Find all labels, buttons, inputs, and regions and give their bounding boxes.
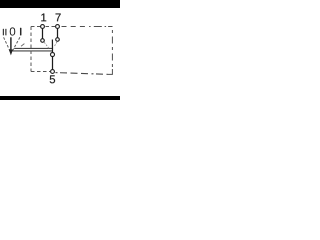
position label II xyxy=(0,29,31,35)
pin label 7 xyxy=(56,14,61,22)
top letterbox bar xyxy=(0,0,120,8)
pin label 1 xyxy=(41,14,46,22)
contact B circle xyxy=(56,38,60,42)
terminal 7 circle xyxy=(56,25,60,29)
wire pivot to terminal 5 xyxy=(52,57,54,70)
lever phantom toward contact B (dashed) xyxy=(54,42,57,47)
position label I xyxy=(0,28,66,35)
terminal 1 circle xyxy=(41,25,45,29)
lever phantom toward contact A (dashed) xyxy=(44,42,49,48)
actuator phantom position II (dashed diagonal) xyxy=(4,37,10,50)
actuator arrow (position 0) xyxy=(10,37,12,50)
switch body dashed box top edge xyxy=(31,26,41,28)
contact A circle xyxy=(41,39,45,43)
wire terminal 7 to contact B xyxy=(57,28,59,37)
terminal 5 circle xyxy=(51,70,55,74)
position label 0 xyxy=(10,27,16,35)
lever pivot circle C xyxy=(51,53,55,57)
switch body dashed box left edge xyxy=(30,27,32,72)
bottom letterbox bar xyxy=(0,96,120,100)
mechanical linkage dash-dot bottom xyxy=(56,73,108,75)
pin label 5 xyxy=(50,75,55,83)
actuator phantom position I (dashed diagonal) xyxy=(13,37,20,50)
actuator bar (double line) xyxy=(14,47,52,49)
mechanical linkage dash-dot right xyxy=(111,30,113,68)
mechanical linkage dash-dot top xyxy=(62,26,113,28)
moving contact lever (position 0) xyxy=(51,40,53,53)
wire terminal 1 to contact A xyxy=(42,28,44,38)
switch body dashed box bottom edge xyxy=(31,71,50,73)
actuator bar phantom dash xyxy=(21,44,24,47)
